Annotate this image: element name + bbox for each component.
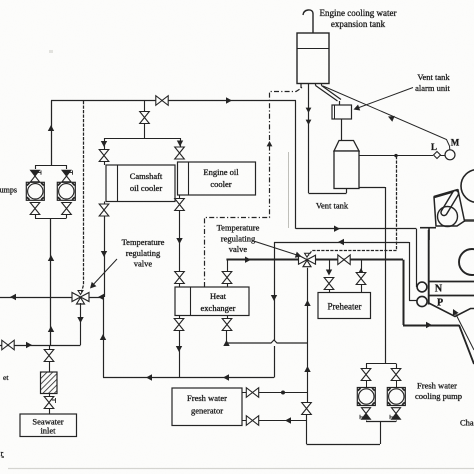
flow arrow left to fwg [285,417,291,423]
tank nozzles [301,84,322,89]
pointer line to 3way no2 [252,241,300,257]
wire fwg feed tap [259,392,308,394]
flow arrow down [176,238,182,244]
flow arrow down [306,108,312,113]
flow arrow up riser [48,125,54,131]
svg-text:expansion tank: expansion tank [331,19,386,29]
svg-text:valve: valve [229,244,248,254]
pointer line charge air cooler [454,311,474,351]
wire cooler feed drop [144,101,146,112]
wire return drop x274 [274,242,276,340]
vent pipe hook [303,10,313,33]
valve hx top right [222,272,232,284]
engine ledge [420,227,436,229]
vent tank alarm unit box [332,105,352,119]
housing top edge thick [434,190,458,197]
flow arrow right thick [245,257,251,263]
engine cylinder big circle [461,170,474,203]
check valve fw pump2 [390,408,401,420]
valve fw pump1 suction [361,369,371,381]
svg-text:oil cooler: oil cooler [130,183,163,193]
wire tank overflow to alarm unit [316,86,342,106]
flow arrow down [326,270,332,276]
wire to engine oil clr [180,138,182,147]
valve top header gate [156,96,168,106]
svg-text:Fresh water: Fresh water [417,381,457,391]
valve engine oil cooler inlet [175,147,185,159]
wire preheater feed [329,260,331,273]
flow arrow up [304,300,310,306]
wire stub pump2 [66,165,68,169]
svg-text:Fresh water: Fresh water [187,393,227,403]
wire to P circle [409,300,417,302]
wire recirculation drop [80,303,82,345]
engine block [428,228,430,240]
wire stub to M [449,146,451,150]
box preheater [318,293,371,319]
pump sea water no2 [57,182,75,200]
wire hx bottom link with hop [227,340,308,343]
chain sensing line to 3way no1 [82,101,84,292]
wire [226,331,228,343]
pointer arrowhead [88,282,97,291]
svg-text:cooler: cooler [210,179,231,189]
wire fw suction manifold [366,363,396,365]
svg-text:alarm unit: alarm unit [415,83,450,93]
wire return header y377 [103,377,274,379]
scan specks [49,50,53,53]
wire discharge bottom run [307,444,381,446]
valve engine oil cooler outlet [175,199,185,211]
svg-text:umps: umps [0,186,17,195]
flow arrow up on chain [267,141,273,146]
valve hx right bottom [222,319,232,331]
flow arrow up [48,326,54,332]
divider heat exchanger [190,287,192,316]
pointer arrowhead [450,308,458,316]
svg-text:Temperature: Temperature [122,237,165,247]
wire cooler feed manifold y138 [104,138,180,140]
wire return riser to 3way1 [103,297,105,378]
wire thick drop x403 [403,260,405,325]
wire expansion header drop x295 [295,101,297,229]
wire expansion drain to vent tank [308,86,310,193]
flow arrow down recirc [77,317,83,323]
check valve pump2 discharge [62,170,73,182]
flow arrow down [177,141,183,147]
flow arrow up [48,255,54,261]
valve recirc left edge [2,340,14,350]
valve hx outlet left [174,319,184,331]
wire thick y325 to charge air cooler [403,325,459,327]
svg-text:exchanger: exchanger [201,303,236,313]
valve fwg return [246,416,258,426]
check valve fw pump1 [360,408,371,420]
pump fresh water no1 [357,388,375,406]
svg-text:Vent tank: Vent tank [316,201,349,211]
wire vent tank bottom to x385 drop [359,187,385,189]
node N port circle [417,282,427,292]
wire fw pump discharge riser [307,268,309,402]
chain balance line from expansion tank [205,85,302,287]
wire preheater return [361,260,363,270]
svg-text:Heat: Heat [210,291,227,301]
svg-text:valve: valve [134,259,153,269]
wire stub [66,215,68,218]
valve cooler feed [140,112,150,124]
svg-text:Preheater: Preheater [328,302,362,312]
wire main top header y100 [51,100,296,102]
svg-text:Temperature: Temperature [217,223,260,233]
wire recirculation line y345 [0,345,81,347]
box heat exchanger [175,287,249,316]
wire stub [35,215,37,218]
pointer to alarm unit [355,88,413,110]
tank engine cooling water expansion tank [297,33,329,84]
flow arrow up [304,366,310,372]
engine conrod [444,194,456,213]
wire hx outlet down [179,331,181,378]
box sea water inlet [20,414,77,437]
check valve pump1 discharge [31,170,42,182]
wire [49,345,51,349]
flow arrow right supply [334,226,340,232]
wire pump discharge riser [51,101,53,166]
svg-text:Engine cooling water: Engine cooling water [320,8,397,18]
wire pump discharge manifold [35,165,67,167]
pointer line to 3way no1 [91,259,117,287]
wire to camshaft clr [104,138,106,149]
wire diagonal to charge air cooler off-canvas [459,325,474,364]
wire drop x385 [385,187,387,260]
wire fw discharge manifold [366,421,396,423]
wire down to N port [416,229,418,287]
valve fw pump2 suction [391,369,401,381]
wire level alarm diagonal to M [323,86,450,146]
wire pump suction manifold [35,218,67,220]
valve fwg feed [246,388,258,398]
svg-text:regulating: regulating [221,234,256,244]
valve fw line gate [338,255,350,265]
flow arrow up [100,334,106,340]
engine block left edge [428,230,430,305]
wire [49,362,51,372]
wire drain bottom run [309,193,347,195]
wire stub hx top right [227,260,229,271]
divider engine oil cooler [188,162,190,195]
valve preheater outlet [356,273,366,285]
wire overboard discharge y297 [0,297,104,299]
box fresh water generator [172,388,242,426]
flow arrow right recirc [26,342,32,348]
svg-text:Cha: Cha [460,418,474,428]
box engine oil cooler [178,162,256,195]
svg-text:N: N [435,284,443,295]
wire engine return y242 [274,242,409,244]
wire [104,162,106,165]
flow arrow up into hx [223,340,229,346]
3-way temperature regulating valve no1 [72,291,89,305]
node M circle device [445,150,455,160]
wire fwg return tap [259,420,307,422]
pointer arrowhead [352,104,360,112]
valve heat exchanger sw inlet [175,272,185,284]
valve camshaft cooler outlet [99,204,109,216]
wire vent tank outlet y155 [359,155,433,157]
wire into vent tank bottom [346,189,348,194]
node P port circle [417,296,427,306]
flow arrow left [223,374,229,380]
pump sea water no1 [26,182,44,200]
flow arrow right [426,322,432,328]
engine crank housing [434,190,465,226]
wire stub pump1 [35,165,37,169]
svg-text:Camshaft: Camshaft [130,171,163,181]
wire [306,415,308,444]
valve tick [52,398,56,403]
flow arrow right on top header [226,97,232,103]
vent tank dome [334,141,359,152]
flow arrow left into 3way [98,294,104,300]
svg-text:Engine oil: Engine oil [203,167,239,177]
flow arrow down [306,120,312,125]
pointer arrowhead [295,252,303,260]
flow arrow left [146,374,152,380]
svg-text:Vent tank: Vent tank [417,72,450,82]
wire [144,124,146,138]
wire thick fw supply y259 [226,258,403,260]
engine block divider N [429,281,474,283]
arrowhead on diagonal [387,114,395,122]
engine platform bar [450,219,474,222]
flow arrow down [271,295,277,301]
wire engine supply y228 [296,228,417,230]
wire to heat exch [179,211,181,271]
faint scan crease [288,152,290,228]
wire fw pump suction riser [385,260,387,364]
wire [49,394,51,398]
flow arrow left return [338,239,344,245]
valve fw discharge [302,403,312,415]
wire up to discharge manifold [380,422,382,445]
valve camshaft cooler inlet [99,150,109,162]
svg-text:inlet: inlet [40,426,56,436]
engine block divider P [429,295,474,297]
valve L level device (diamond) [434,152,441,159]
flow arrow down [101,141,107,147]
svg-text:et: et [3,373,9,382]
pump fresh water no2 [387,388,405,406]
svg-text:M: M [451,138,460,148]
wire alarm to vent tank dome [341,119,343,140]
flow arrow down [176,346,182,352]
divider camshaft cooler [117,165,119,202]
valve pump1 suction [30,203,40,215]
wire suction riser down [50,218,52,345]
valve pump2 suction [62,203,72,215]
valve sea suction lower [44,397,54,409]
svg-text:L: L [431,142,437,152]
wire [49,409,51,414]
flow arrow down [101,251,107,257]
engine crank circle [438,207,458,227]
wire below hop [274,346,276,378]
svg-text:cooling pump: cooling pump [415,391,462,401]
wire camshaft outlet down to 3way junction [104,217,106,298]
wire down to P port [409,242,411,301]
water level line [297,48,329,50]
svg-text:generator: generator [191,406,223,416]
engine sump taper [429,303,474,317]
flow arrow left overboard [10,294,16,300]
flow arrow up [358,268,364,274]
3-way temperature regulating valve no2 [299,253,316,267]
box camshaft oil cooler [106,165,175,202]
valve sea suction upper [44,350,54,362]
valve preheater inlet [324,278,334,290]
svg-text:regulating: regulating [126,248,161,258]
chain sensing line to 3way no2 [309,156,397,256]
